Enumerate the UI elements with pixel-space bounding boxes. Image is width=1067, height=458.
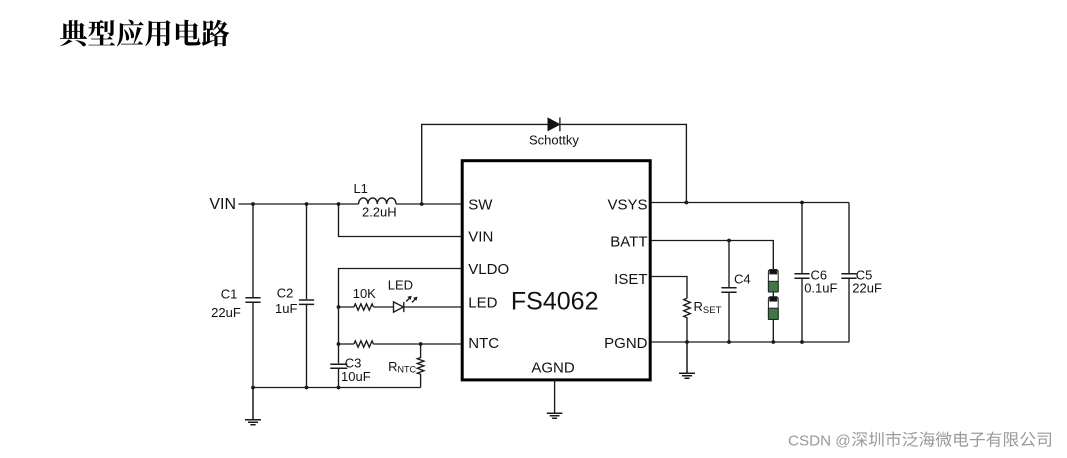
junction dot rail-C2 — [305, 202, 309, 206]
title 典型应用电路 — [60, 20, 229, 47]
svg-text:NTC: NTC — [468, 335, 499, 352]
junction dot PGND-C4 — [727, 340, 731, 344]
svg-text:10K: 10K — [353, 286, 376, 301]
resistor R NTC-series — [354, 341, 373, 347]
capacitor C3 — [330, 355, 370, 384]
svg-text:L1: L1 — [353, 181, 367, 196]
junction dot VLDO-LED row — [337, 305, 341, 309]
battery BT1 — [768, 270, 778, 343]
junction dot gnd-C3 — [337, 386, 341, 390]
capacitor C4 — [721, 241, 750, 343]
svg-text:FS4062: FS4062 — [511, 287, 599, 315]
wire ISET — [651, 277, 687, 299]
svg-text:VSYS: VSYS — [607, 196, 647, 213]
wire VIN rail — [239, 203, 463, 205]
resistor R 10K — [354, 304, 373, 310]
svg-text:VIN: VIN — [209, 196, 236, 213]
svg-text:0.1uF: 0.1uF — [804, 280, 837, 295]
wire LED row — [339, 306, 463, 308]
wire PGND rail — [651, 341, 849, 343]
svg-text:2.2uH: 2.2uH — [362, 205, 397, 220]
wire AGND — [554, 380, 556, 413]
junction dot VSYS-schottky — [685, 201, 689, 205]
ground G1 — [245, 388, 261, 425]
junction dot rail-C1 — [251, 202, 255, 206]
inductor L1 — [359, 198, 396, 204]
diode D1 schottky — [529, 118, 579, 148]
resistor RNTC — [388, 344, 424, 388]
junction dot NTC-RNTC — [419, 342, 423, 346]
svg-text:AGND: AGND — [531, 359, 575, 376]
svg-text:C4: C4 — [734, 272, 751, 287]
svg-text:LED: LED — [388, 278, 413, 293]
svg-text:1uF: 1uF — [275, 301, 297, 316]
capacitor C2 — [275, 204, 314, 388]
svg-text:ISET: ISET — [614, 271, 647, 288]
svg-text:VLDO: VLDO — [468, 261, 509, 278]
resistor RSET — [684, 298, 722, 342]
wire VSYS rail — [651, 202, 849, 204]
wire VIN pin — [339, 204, 463, 237]
svg-text:BATT: BATT — [610, 234, 647, 251]
capacitor C5 — [841, 203, 882, 343]
LED D2 — [388, 278, 418, 313]
junction dot gnd-C1 — [251, 386, 255, 390]
capacitor C1 — [211, 204, 260, 388]
junction dot gnd-C2 — [305, 386, 309, 390]
junction dot rail-VIN pin — [337, 202, 341, 206]
junction dot PGND-BT1 — [771, 340, 775, 344]
wire schottky loop — [422, 124, 687, 204]
wire BATT — [651, 241, 773, 271]
junction dot VLDO-NTC row — [337, 342, 341, 346]
svg-text:C2: C2 — [277, 285, 294, 300]
svg-text:CSDN @: CSDN @ — [788, 433, 851, 450]
wire VLDO pin — [339, 269, 463, 388]
ground G3 — [547, 413, 563, 418]
svg-text:10uF: 10uF — [341, 369, 371, 384]
capacitor C6 — [794, 203, 837, 343]
wire NTC row — [339, 343, 463, 345]
svg-text:C1: C1 — [221, 286, 238, 301]
ground G2 — [679, 342, 695, 378]
wire bottom-left ground rail — [253, 387, 421, 389]
svg-text:22uF: 22uF — [852, 280, 882, 295]
svg-text:SW: SW — [468, 196, 493, 213]
svg-text:22uF: 22uF — [211, 305, 241, 320]
junction dot PGND-RSET — [685, 340, 689, 344]
junction dot PGND-C6 — [800, 340, 804, 344]
svg-text:VIN: VIN — [468, 228, 493, 245]
junction dot BATT-C4 — [727, 239, 731, 243]
junction dot rail-schottky — [420, 202, 424, 206]
IC U1 FS4062 — [462, 161, 650, 380]
svg-text:PGND: PGND — [604, 335, 648, 352]
svg-text:Schottky: Schottky — [529, 133, 579, 148]
junction dot VSYS-C6 — [800, 201, 804, 205]
svg-text:LED: LED — [468, 294, 497, 311]
